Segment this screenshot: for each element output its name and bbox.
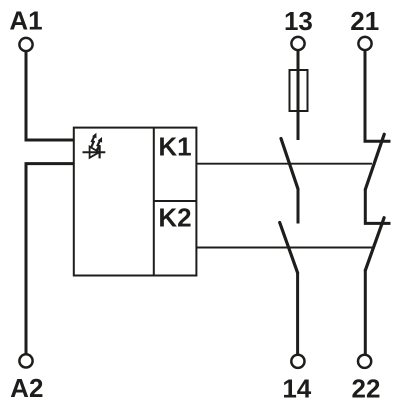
- relay module box: [74, 128, 197, 276]
- LED emission flash arrow 2: [97, 140, 101, 151]
- LED indicator: [83, 133, 106, 159]
- svg-text:21: 21: [350, 6, 379, 36]
- contact K2 NC arm (21-22 path): [365, 218, 384, 271]
- wire NO contact to 14: [296, 273, 299, 355]
- K1/K2 compartment divider: [154, 200, 197, 202]
- coil/contact divider: [153, 128, 155, 276]
- wire 21 to NC seat 1: [365, 50, 391, 141]
- K2 actuation line: [196, 247, 372, 249]
- terminal circle A2: [19, 354, 32, 367]
- LED triangle: [90, 147, 100, 158]
- svg-text:K2: K2: [158, 202, 191, 232]
- contact K1 NC arm (21-22 path): [365, 134, 384, 189]
- svg-text:A2: A2: [10, 373, 43, 403]
- LED cathode bar: [98, 146, 100, 158]
- K1 actuation line: [196, 163, 372, 165]
- svg-text:13: 13: [284, 6, 313, 36]
- terminal circle 22: [358, 355, 371, 368]
- wire 13 to NO contact: [297, 50, 300, 140]
- wire coil box to A2: [26, 164, 74, 354]
- wire A1 to coil box: [26, 51, 74, 140]
- contact K1 NO arm (13-14 path): [281, 139, 298, 190]
- svg-text:A1: A1: [9, 5, 42, 35]
- terminal circle A1: [19, 38, 32, 51]
- terminal circle 13: [291, 37, 304, 50]
- fuse F1: [290, 70, 308, 111]
- wire NC contact to 22: [364, 270, 367, 354]
- svg-text:K1: K1: [158, 132, 191, 162]
- LED anode line: [83, 151, 106, 153]
- LED emission flash arrow 1: [91, 136, 95, 148]
- svg-text:14: 14: [282, 374, 311, 404]
- contact K2 NO arm (13-14 path): [280, 223, 298, 273]
- wire between NO contacts: [297, 189, 300, 224]
- terminal circle 21: [358, 37, 371, 50]
- terminal circle 14: [291, 355, 304, 368]
- svg-text:22: 22: [352, 374, 381, 404]
- wire NC arm 1 to NC seat 2: [365, 190, 390, 224]
